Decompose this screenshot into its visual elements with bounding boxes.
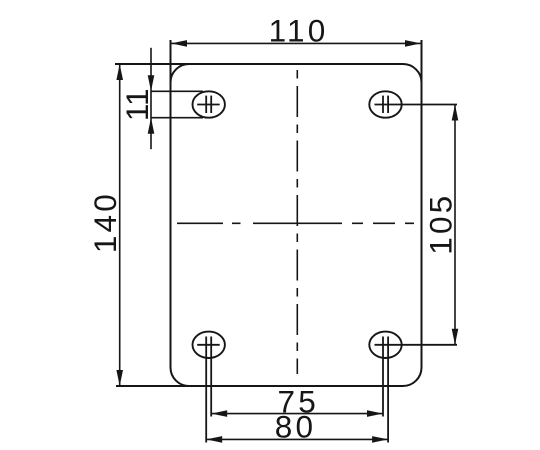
svg-text:11: 11 bbox=[119, 88, 155, 121]
svg-text:140: 140 bbox=[87, 191, 123, 253]
svg-text:110: 110 bbox=[269, 13, 329, 49]
svg-text:80: 80 bbox=[275, 408, 316, 444]
svg-text:105: 105 bbox=[422, 193, 458, 255]
